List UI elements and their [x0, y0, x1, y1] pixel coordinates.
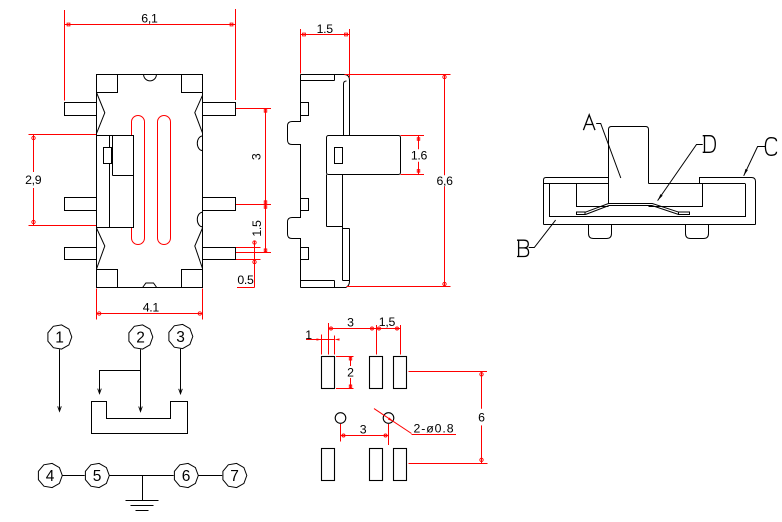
svg-text:0.5: 0.5: [237, 273, 254, 287]
svg-text:3: 3: [360, 422, 367, 436]
svg-text:6,6: 6,6: [436, 174, 453, 188]
svg-text:1.6: 1.6: [411, 148, 428, 162]
svg-text:1.5: 1.5: [317, 22, 334, 36]
svg-text:2-ø0.8: 2-ø0.8: [414, 422, 455, 436]
svg-text:6: 6: [182, 468, 191, 485]
svg-text:2,9: 2,9: [25, 173, 42, 187]
svg-text:1: 1: [305, 328, 312, 342]
svg-text:7: 7: [230, 468, 239, 485]
svg-text:5: 5: [93, 468, 102, 485]
svg-text:1.5: 1.5: [250, 220, 264, 237]
svg-text:6,1: 6,1: [141, 12, 158, 26]
svg-text:2: 2: [347, 365, 354, 379]
svg-text:4.1: 4.1: [143, 301, 160, 315]
svg-text:3: 3: [176, 329, 185, 346]
svg-text:1,5: 1,5: [379, 315, 396, 329]
svg-text:6: 6: [478, 410, 485, 424]
svg-text:4: 4: [46, 468, 55, 485]
svg-text:1: 1: [55, 330, 64, 347]
svg-text:3: 3: [250, 153, 264, 160]
svg-text:3: 3: [347, 315, 354, 329]
svg-text:2: 2: [136, 330, 145, 347]
